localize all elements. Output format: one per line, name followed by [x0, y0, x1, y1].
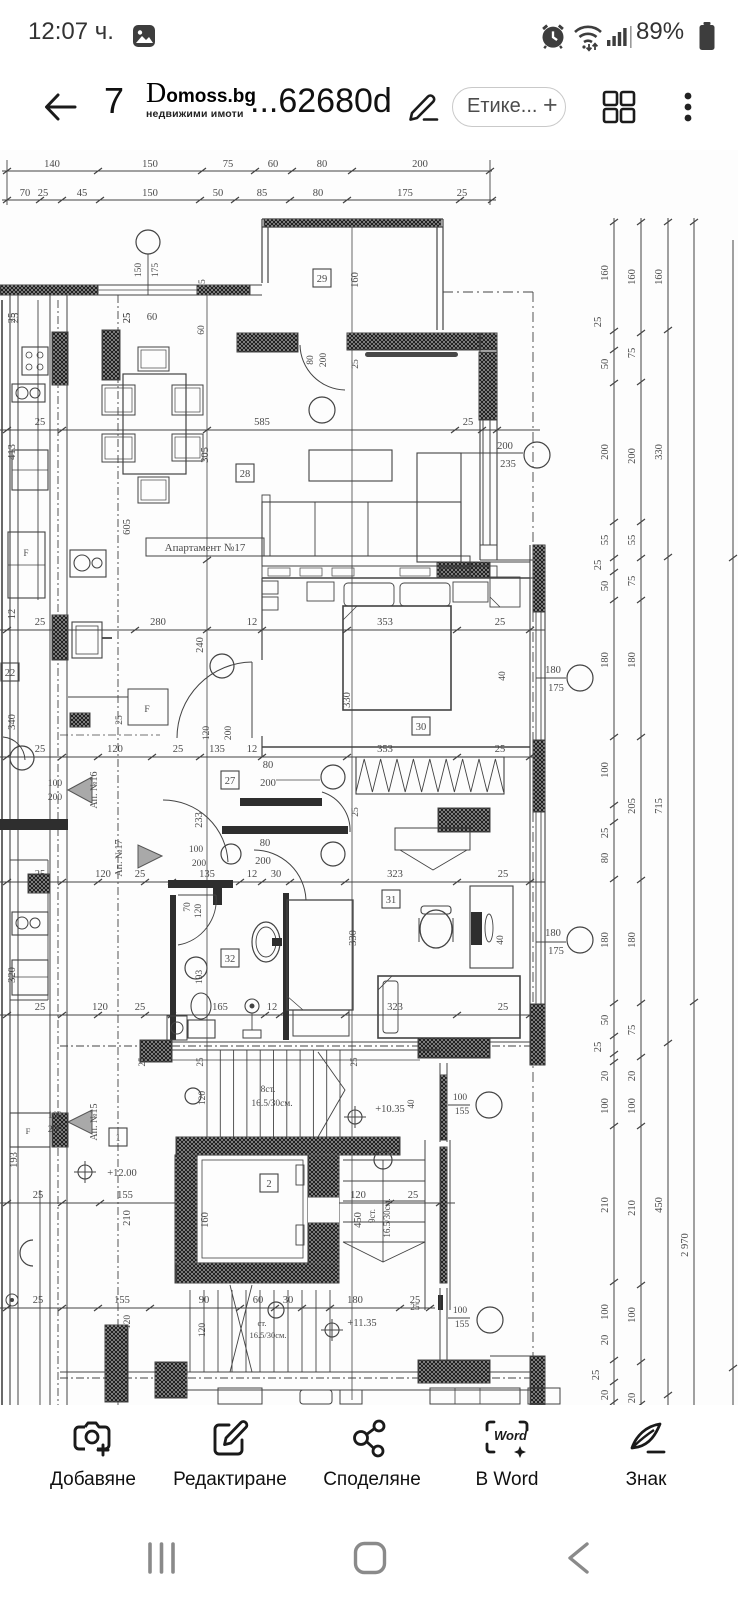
marker circle corr b — [321, 842, 345, 866]
svg-text:31: 31 — [386, 895, 397, 906]
axis line B (dash-dot x118) — [117, 295, 119, 1415]
label Апартамент №17 — [146, 538, 264, 556]
svg-text:120: 120 — [202, 726, 212, 741]
svg-text:25: 25 — [498, 869, 509, 880]
living top wall hatch left — [237, 333, 298, 352]
svg-text:+10.35: +10.35 — [375, 1104, 405, 1115]
chair — [102, 385, 135, 415]
hatch block apt16 — [70, 713, 90, 727]
svg-text:Word: Word — [494, 1428, 528, 1443]
apt16 door arc — [3, 737, 25, 760]
apt15 drain — [6, 1294, 18, 1306]
svg-text:25: 25 — [195, 1057, 205, 1067]
svg-text:70: 70 — [20, 188, 31, 199]
dimension chain y1200 — [0, 1202, 455, 1204]
room label 30 — [412, 717, 430, 735]
icon edit — [211, 1418, 251, 1460]
chair — [138, 477, 169, 503]
svg-text:25: 25 — [593, 317, 604, 328]
divider hatch post 3 — [52, 1113, 68, 1147]
svg-text:120: 120 — [107, 744, 123, 755]
signal bars — [606, 24, 636, 50]
dimension chain y1305 — [0, 1307, 435, 1309]
svg-text:193: 193 — [195, 970, 205, 985]
axis bubble top — [136, 230, 160, 254]
level mark +12.00 — [78, 1165, 92, 1179]
svg-text:20: 20 — [600, 1390, 611, 1401]
svg-text:323: 323 — [387, 1002, 403, 1013]
grid icon — [601, 89, 637, 125]
chair — [138, 347, 169, 371]
room label 22 — [1, 663, 19, 681]
svg-text:29: 29 — [317, 274, 328, 285]
svg-text:155: 155 — [117, 1190, 133, 1201]
svg-text:60: 60 — [268, 159, 279, 170]
marker circle corr a — [321, 765, 345, 789]
icon add (camera+) — [72, 1419, 114, 1461]
Domoss logo — [146, 83, 256, 120]
svg-text:353: 353 — [377, 617, 393, 628]
bedroom30 left wall — [261, 578, 263, 660]
svg-text:12: 12 — [247, 744, 258, 755]
corridor wall line y1042 — [140, 1041, 530, 1043]
apt16 fridge — [12, 450, 48, 490]
left outer wall — [9, 295, 11, 1420]
svg-text:Ап. №17: Ап. №17 — [114, 839, 125, 876]
room label 32 — [221, 949, 239, 967]
hatch corner corridor — [140, 1040, 172, 1062]
svg-text:120: 120 — [350, 1190, 366, 1201]
entrance door apt17 — [163, 800, 228, 862]
dimension chain y1012 — [0, 1014, 545, 1016]
washbasin — [252, 922, 280, 962]
svg-text:+11.35: +11.35 — [347, 1318, 376, 1329]
svg-text:330: 330 — [654, 444, 665, 460]
icon sign (quill) — [626, 1418, 668, 1460]
svg-text:200: 200 — [600, 444, 611, 460]
door room31 arc — [322, 792, 350, 832]
nav back — [563, 1541, 593, 1575]
wall right of stairs — [439, 1063, 441, 1142]
svg-text:25: 25 — [198, 279, 208, 289]
svg-text:80: 80 — [306, 355, 316, 365]
dimension line V2 — [640, 218, 642, 1408]
wardrobe zigzag room31 — [356, 757, 504, 794]
svg-text:100: 100 — [627, 1307, 638, 1323]
svg-text:30: 30 — [416, 722, 427, 733]
window marker 180/175 bedroom31 — [536, 941, 566, 943]
nav home — [353, 1541, 387, 1575]
svg-text:25: 25 — [408, 1190, 419, 1201]
apt16 counter — [37, 300, 39, 600]
back arrow — [42, 90, 78, 124]
svg-text:25: 25 — [35, 417, 46, 428]
window marker 100/155 bottom — [448, 1317, 470, 1319]
nightstand left — [307, 582, 334, 601]
svg-text:25: 25 — [35, 617, 46, 628]
bottom corridor dash-dot — [60, 1377, 545, 1379]
3 dots menu — [680, 90, 696, 126]
toilet — [191, 993, 211, 1019]
bed room31 — [378, 976, 520, 1038]
elevator right wall — [308, 1155, 339, 1283]
hatch wall flight2 — [440, 1147, 447, 1283]
apt17 stove — [72, 622, 102, 658]
svg-text:25: 25 — [593, 560, 604, 571]
section line horizontal y292 — [443, 291, 533, 293]
svg-text:2: 2 — [266, 1179, 271, 1190]
svg-text:100: 100 — [627, 1098, 638, 1114]
window bedroom 31 — [535, 812, 537, 1004]
level mark +10.35 — [348, 1110, 362, 1124]
wall hatch room31 — [438, 808, 490, 832]
svg-text:75: 75 — [627, 1025, 638, 1036]
svg-text:25: 25 — [591, 1370, 602, 1381]
svg-text:25: 25 — [457, 188, 468, 199]
room label 27 — [221, 771, 239, 789]
svg-text:75: 75 — [627, 348, 638, 359]
svg-text:150: 150 — [142, 188, 158, 199]
axis line D x352 — [351, 219, 353, 1400]
svg-text:25: 25 — [495, 617, 506, 628]
svg-text:25: 25 — [498, 1002, 509, 1013]
window marker 200/235 — [455, 452, 523, 454]
svg-text:16.5/30см.: 16.5/30см. — [249, 1330, 286, 1340]
hatch wall stairs — [440, 1075, 447, 1140]
svg-text:F: F — [23, 548, 28, 558]
wifi icon — [571, 22, 605, 52]
right wall hatch seg2 — [533, 740, 545, 812]
svg-text:200: 200 — [260, 778, 276, 789]
svg-text:25: 25 — [495, 744, 506, 755]
section line vertical x533 — [532, 292, 534, 1360]
svg-text:100: 100 — [189, 845, 204, 855]
dimension chain top row 1 — [2, 170, 492, 172]
svg-text:200: 200 — [412, 159, 428, 170]
room label 31 — [382, 890, 400, 908]
svg-text:200: 200 — [627, 448, 638, 464]
svg-text:25: 25 — [349, 1057, 359, 1067]
svg-text:330: 330 — [342, 692, 353, 708]
svg-text:80: 80 — [313, 188, 324, 199]
apt16 sink — [12, 384, 45, 402]
window right living — [482, 420, 484, 545]
svg-text:193: 193 — [9, 1152, 20, 1168]
apt16 bottom wall — [0, 819, 68, 830]
svg-text:8ст.: 8ст. — [261, 1085, 276, 1095]
svg-text:9ст.: 9ст. — [367, 1209, 377, 1223]
marker circle living — [309, 397, 335, 423]
elevator door — [308, 1197, 339, 1223]
svg-text:40: 40 — [496, 935, 506, 945]
svg-text:F: F — [26, 1126, 31, 1136]
coffee table — [309, 450, 392, 481]
svg-text:28: 28 — [240, 469, 251, 480]
bed room30 — [343, 606, 451, 710]
svg-text:16.5/30см.: 16.5/30см. — [382, 1198, 392, 1237]
svg-text:20: 20 — [600, 1335, 611, 1346]
svg-text:100: 100 — [453, 1093, 468, 1103]
svg-text:353: 353 — [377, 744, 393, 755]
svg-text:Апартамент №17: Апартамент №17 — [165, 542, 246, 554]
label pill button — [452, 87, 566, 127]
svg-text:200: 200 — [319, 353, 329, 368]
svg-text:12: 12 — [247, 617, 258, 628]
svg-text:200: 200 — [48, 1125, 63, 1135]
svg-text:16.5/30см.: 16.5/30см. — [251, 1099, 292, 1109]
dimension line V1 — [613, 218, 615, 1408]
svg-text:200: 200 — [224, 726, 234, 741]
right wall hatch — [479, 352, 497, 420]
svg-text:45: 45 — [77, 188, 88, 199]
living room door arc — [300, 345, 345, 390]
svg-text:25: 25 — [33, 1295, 44, 1306]
dimension chain y623 — [0, 629, 545, 631]
dimension chain y882 — [0, 881, 545, 883]
elevator cabin — [197, 1155, 308, 1263]
window marker 100/155 mid — [448, 1104, 470, 1106]
nav recents — [147, 1542, 185, 1574]
apt15 bathtub — [20, 1240, 33, 1266]
svg-text:+12.00: +12.00 — [107, 1168, 137, 1179]
svg-text:50: 50 — [213, 188, 224, 199]
office chair — [420, 910, 452, 948]
svg-text:ст.: ст. — [258, 1318, 267, 1328]
svg-text:155: 155 — [455, 1107, 470, 1117]
dimension line V5 (edge) — [732, 240, 734, 1408]
bathroom right wall — [283, 893, 289, 1040]
svg-text:235: 235 — [500, 459, 516, 470]
svg-text:323: 323 — [387, 869, 403, 880]
top wall window (kitchen) — [98, 284, 197, 286]
axis cross y560 — [203, 557, 211, 563]
bedroom30 top wall — [262, 577, 530, 579]
hatch post kitchen axis — [102, 330, 120, 380]
svg-text:25: 25 — [463, 417, 474, 428]
corridor wall bar 2 — [222, 826, 348, 834]
dresser with mirror — [395, 828, 470, 850]
svg-text:25: 25 — [135, 1002, 146, 1013]
svg-text:160: 160 — [350, 272, 361, 288]
svg-text:450: 450 — [353, 1212, 364, 1228]
svg-text:25: 25 — [137, 1057, 147, 1067]
svg-text:22: 22 — [5, 668, 16, 679]
bed pillow31 — [383, 981, 398, 1033]
vestibule door arc — [254, 850, 306, 900]
apt15 triangle — [68, 1110, 92, 1134]
hatch right bottom — [530, 1356, 545, 1405]
room label 2 — [260, 1174, 278, 1192]
top wall hatched segment left — [0, 285, 98, 295]
svg-text:12: 12 — [7, 609, 18, 620]
svg-text:175: 175 — [548, 946, 564, 957]
svg-text:605: 605 — [122, 519, 133, 535]
corridor wall bar 1 — [240, 798, 322, 806]
svg-text:180: 180 — [627, 652, 638, 668]
level mark +11.35 — [325, 1323, 339, 1337]
elevator left wall — [175, 1155, 197, 1283]
dimension line V4 — [693, 218, 695, 1408]
svg-text:100: 100 — [600, 762, 611, 778]
hatch band bottom right — [418, 1360, 490, 1383]
svg-text:100: 100 — [600, 1304, 611, 1320]
top wall hatched segment right — [197, 285, 250, 295]
elevator top wall — [176, 1137, 400, 1155]
svg-text:160: 160 — [600, 265, 611, 281]
apt16 stove — [22, 347, 48, 375]
svg-text:80: 80 — [600, 853, 611, 864]
svg-text:60: 60 — [197, 325, 207, 335]
chair — [102, 434, 135, 462]
svg-text:450: 450 — [654, 1197, 665, 1213]
svg-text:120: 120 — [194, 904, 204, 919]
apt16 stove lower — [28, 874, 50, 893]
svg-text:25: 25 — [173, 744, 184, 755]
stairs flight 3 — [189, 1290, 191, 1372]
svg-text:175: 175 — [548, 683, 564, 694]
svg-text:340: 340 — [7, 714, 18, 730]
apt16 sink lower — [12, 912, 48, 935]
wall right of flight2 — [424, 1140, 426, 1310]
window frame bit — [438, 1295, 443, 1310]
door bedroom30 — [251, 662, 253, 738]
svg-text:120: 120 — [198, 1091, 208, 1106]
svg-text:175: 175 — [151, 263, 161, 278]
svg-text:Ап. №15: Ап. №15 — [89, 1103, 100, 1140]
bathroom wall stub — [213, 887, 222, 905]
svg-text:80: 80 — [263, 760, 274, 771]
battery — [697, 21, 717, 51]
svg-text:165: 165 — [212, 1002, 228, 1013]
right wall hatch seg3 — [530, 1004, 545, 1065]
svg-text:75: 75 — [223, 159, 234, 170]
bathroom top wall — [168, 880, 233, 888]
svg-text:160: 160 — [627, 269, 638, 285]
alarm icon — [539, 22, 567, 50]
room label 29 — [313, 269, 331, 287]
svg-text:85: 85 — [257, 188, 268, 199]
marker circle apt16 — [10, 746, 34, 770]
apt16 cabinet F — [8, 532, 45, 598]
dimension chain y430 — [0, 429, 540, 431]
wardrobe box 2 — [262, 597, 278, 610]
stair post circle — [185, 1088, 201, 1104]
bedroom top-right wall hatch — [437, 562, 490, 578]
apt16 triangle — [68, 777, 92, 803]
svg-text:100: 100 — [48, 779, 63, 789]
svg-text:80: 80 — [317, 159, 328, 170]
svg-text:40: 40 — [498, 671, 508, 681]
svg-text:30: 30 — [271, 869, 282, 880]
svg-text:25: 25 — [410, 1303, 420, 1313]
floor drain — [245, 999, 259, 1013]
svg-text:20: 20 — [627, 1393, 638, 1404]
desk — [470, 886, 513, 968]
sideboard under window — [365, 352, 458, 357]
svg-text:175: 175 — [397, 188, 413, 199]
svg-text:F: F — [144, 705, 149, 715]
stair break line — [318, 1052, 345, 1137]
svg-text:55: 55 — [627, 535, 638, 546]
svg-text:1: 1 — [115, 1133, 120, 1144]
svg-text:25: 25 — [38, 188, 49, 199]
svg-text:210: 210 — [627, 1200, 638, 1216]
axis line A (dash-dot x58) — [57, 300, 59, 1418]
svg-text:12: 12 — [267, 1002, 278, 1013]
svg-text:20: 20 — [627, 1071, 638, 1082]
svg-text:25: 25 — [135, 869, 146, 880]
svg-text:60: 60 — [253, 1295, 264, 1306]
svg-text:25: 25 — [122, 313, 133, 324]
window marker 180/175 bedroom30 — [536, 677, 566, 679]
svg-text:12: 12 — [247, 869, 258, 880]
svg-text:25: 25 — [351, 359, 361, 369]
svg-text:25: 25 — [35, 744, 46, 755]
svg-text:180: 180 — [600, 932, 611, 948]
room label 1 — [109, 1128, 127, 1146]
svg-text:50: 50 — [600, 1015, 611, 1026]
svg-text:32: 32 — [225, 954, 236, 965]
svg-text:25: 25 — [593, 1042, 604, 1053]
svg-text:40: 40 — [406, 1099, 416, 1109]
pillow 1 — [344, 583, 394, 606]
svg-text:240: 240 — [195, 637, 206, 653]
svg-text:70: 70 — [183, 902, 193, 912]
wardrobe box 1 — [262, 581, 278, 594]
apt16 cabinet lower — [10, 1113, 50, 1147]
svg-text:25: 25 — [35, 1002, 46, 1013]
svg-text:155: 155 — [114, 1295, 130, 1306]
stair circle 3 — [268, 1302, 284, 1318]
svg-text:200: 200 — [192, 859, 207, 869]
bedroom30 bottom wall — [262, 746, 530, 748]
hatch post apt15 — [105, 1325, 128, 1402]
pillow 2 — [400, 583, 450, 606]
dining table — [123, 374, 186, 474]
svg-text:100: 100 — [600, 1098, 611, 1114]
closet F — [128, 689, 168, 725]
nightstand right — [453, 582, 488, 602]
svg-text:120: 120 — [198, 1323, 208, 1338]
svg-text:180: 180 — [627, 932, 638, 948]
svg-text:205: 205 — [627, 798, 638, 814]
dimension line V3 — [667, 218, 669, 1408]
edit pencil icon — [404, 91, 440, 123]
svg-text:200: 200 — [48, 793, 63, 803]
tv console — [262, 566, 497, 578]
svg-text:75: 75 — [627, 576, 638, 587]
svg-text:200: 200 — [255, 856, 271, 867]
tall wardrobe room31 — [287, 900, 353, 1010]
svg-text:160: 160 — [654, 269, 665, 285]
svg-text:100: 100 — [453, 1306, 468, 1316]
window bedroom 30 — [535, 612, 537, 740]
icon B Word — [484, 1418, 530, 1462]
axis line C x207 — [206, 295, 208, 1050]
svg-text:160: 160 — [200, 1212, 211, 1228]
svg-text:715: 715 — [654, 798, 665, 814]
divider hatch post 1 — [52, 332, 68, 385]
svg-text:27: 27 — [225, 776, 236, 787]
divider hatch post 2 — [52, 615, 68, 660]
svg-text:280: 280 — [150, 617, 166, 628]
cabinet top-right bedroom30 — [490, 577, 520, 607]
svg-text:25: 25 — [7, 313, 18, 324]
svg-text:585: 585 — [254, 417, 270, 428]
status bar — [0, 0, 738, 62]
svg-text:150: 150 — [142, 159, 158, 170]
svg-text:50: 50 — [600, 359, 611, 370]
